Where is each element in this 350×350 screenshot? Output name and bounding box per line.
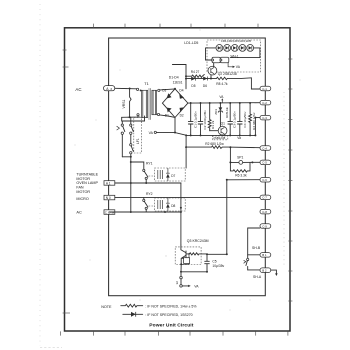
svg-text:VA: VA (194, 284, 199, 288)
svg-text:D6: D6 (203, 84, 207, 88)
LED LD4 (239, 45, 246, 52)
wire: secondary to bridge AC bottom (160, 115, 175, 118)
svg-text:C-8: C-8 (262, 210, 267, 214)
svg-text:LD1-LD5: LD1-LD5 (184, 41, 198, 45)
wire: base drive to micro line (207, 253, 227, 255)
connector A1 (104, 181, 115, 186)
svg-text:B 1: B 1 (262, 253, 267, 257)
switch contacts right branch (130, 117, 132, 124)
svg-text:FAN: FAN (76, 186, 84, 190)
wire: primary bottom bus (122, 116, 140, 118)
svg-text:D3: D3 (162, 88, 166, 92)
wire: VA vertical feed to relays (185, 135, 187, 168)
svg-text:SH-B: SH-B (252, 246, 261, 250)
svg-text:N 0: N 0 (106, 196, 111, 200)
LED LD1 (216, 45, 223, 52)
LED LD2 (224, 45, 231, 52)
diode legend symbol (123, 313, 143, 315)
svg-text:C-6: C-6 (262, 178, 267, 182)
LED LD3 (231, 45, 238, 52)
svg-text:C-2: C-2 (262, 101, 267, 105)
relay RY1 switch (131, 162, 144, 169)
wire: D5 D6 R8 row (186, 77, 217, 79)
connector C-9 (260, 224, 271, 229)
svg-text:Va: Va (237, 136, 241, 140)
svg-text:D5: D5 (191, 84, 195, 88)
diode D6 (203, 77, 207, 81)
relay RY2 switch (143, 197, 145, 199)
svg-text:C-4: C-4 (262, 146, 267, 150)
svg-text:: IF NOT SPECIFIED, 1/4w ± 5%: : IF NOT SPECIFIED, 1/4w ± 5% (145, 305, 196, 309)
connector B-2 (260, 268, 271, 273)
svg-text:TURNTABLE: TURNTABLE (76, 172, 98, 176)
shorting switch SH (247, 255, 249, 259)
svg-text:C2 1000µ/35v: C2 1000µ/35v (203, 110, 207, 130)
resistor legend symbol (121, 304, 143, 307)
zener diode ZD1 (219, 103, 221, 107)
connector C-8 (260, 209, 271, 214)
connector C-6 (260, 178, 271, 183)
capacitor C4 (239, 103, 241, 121)
svg-text:SP1: SP1 (237, 155, 243, 159)
resistor R3 (249, 103, 252, 135)
node: Q2 collector junction (210, 78, 212, 80)
svg-text:Power Unit Circuit: Power Unit Circuit (149, 322, 193, 328)
wire: R1 to Q1 base (210, 130, 219, 132)
svg-text:Q1: Q1 (221, 121, 225, 125)
svg-text:WH-1: WH-1 (231, 55, 239, 59)
wire: B-2 stub with arrow (271, 270, 277, 274)
wire: secondary to bridge AC top (160, 89, 175, 90)
varistor VRS1 (130, 89, 132, 118)
connector C-4 (260, 146, 271, 151)
svg-text:C1 0.1µ/50v: C1 0.1µ/50v (194, 111, 198, 128)
svg-text:B 2: B 2 (262, 269, 267, 273)
svg-text:VRS1: VRS1 (122, 100, 126, 109)
diode D1 (bridge bottom-left) (167, 108, 172, 113)
wire: LED feed left (206, 48, 217, 60)
wire: VA bottom rail (187, 134, 255, 136)
capacitor C1 (190, 103, 192, 121)
connector C-2 (260, 100, 271, 105)
resistor R6 3.3k (230, 162, 250, 172)
display module dashed outline (207, 40, 261, 72)
pin: T1 secondary bottom (157, 113, 159, 115)
node: VRS1 bottom junction (129, 116, 131, 118)
resistor R1 (208, 103, 211, 131)
svg-text:11ES1: 11ES1 (173, 81, 183, 85)
diode D8 (flyback) (167, 198, 169, 203)
connector C-3 (260, 115, 271, 120)
svg-text:R1 2k: R1 2k (211, 120, 215, 129)
wire: +V top rail from bridge to C-2 (188, 102, 260, 104)
diode D4 (bridge top-right) (179, 94, 184, 99)
svg-text:3: 3 (110, 87, 112, 91)
part label box 2SB1238 (212, 136, 228, 140)
wire: N0 row to C-7 (115, 196, 260, 198)
connector A (AC input terminal) (104, 86, 115, 91)
svg-text:Q3 KRC243M: Q3 KRC243M (187, 239, 209, 243)
wire: A to transformer primary (115, 87, 137, 90)
node: rail junction to RY1 (130, 156, 132, 158)
svg-text:RY2: RY2 (146, 192, 153, 196)
svg-text:LD1,LD2,LD3,LD4,LD5: LD1,LD2,LD3,LD4,LD5 (221, 39, 251, 43)
connector N0 (104, 195, 115, 200)
svg-text:C-5: C-5 (262, 161, 267, 165)
svg-text:Q2 2SB1238: Q2 2SB1238 (218, 72, 237, 76)
resistor R8 4.7k (217, 77, 260, 89)
capacitor C5 (206, 254, 208, 261)
svg-text:RD5.6E: RD5.6E (225, 107, 229, 118)
diode D7 (flyback) (167, 168, 169, 173)
wire: COM row (109, 211, 181, 213)
switch LF1 contacts (130, 144, 132, 146)
svg-text:C-9: C-9 (262, 224, 267, 228)
wire: emitter return (180, 264, 182, 272)
net label VA arrow on top rail (221, 100, 223, 103)
svg-text:D8: D8 (171, 204, 175, 208)
svg-text:D1: D1 (165, 114, 169, 118)
svg-text:SH-A: SH-A (253, 275, 262, 279)
svg-text:LF1: LF1 (136, 138, 140, 144)
svg-text:10µ/35v: 10µ/35v (212, 264, 224, 268)
connector WH-1 (212, 57, 220, 63)
svg-text:: IF NOT SPECIFIED, 1SS270: : IF NOT SPECIFIED, 1SS270 (145, 313, 192, 317)
svg-text:2SB1238: 2SB1238 (213, 136, 225, 140)
diode D3 (bridge top-left) (167, 93, 172, 98)
latch LF1 dashed outline (134, 118, 142, 154)
svg-text:D4: D4 (179, 88, 183, 92)
svg-text:R4 27: R4 27 (191, 70, 200, 74)
wire: second bottom bus (122, 120, 145, 122)
wire: micro drive vertical (226, 180, 228, 255)
node: bridge top junction (174, 88, 176, 90)
diode D2 (bridge bottom-right) (180, 107, 185, 112)
svg-text:MOTOR: MOTOR (76, 177, 90, 181)
connector C-7 (260, 195, 271, 200)
wire: C-9 loop to B-1 (248, 228, 260, 255)
svg-text:R8 4.7k: R8 4.7k (216, 82, 228, 86)
svg-text:C4 10µ/50v: C4 10µ/50v (243, 111, 247, 127)
svg-text:D2: D2 (180, 114, 184, 118)
wire: schematic enclosure (left AC rail, top, bottom return) (109, 38, 266, 296)
wire: VA rail left segment (156, 132, 187, 135)
pin: T1 primary bottom (137, 114, 139, 116)
wire: relay drive vertical to Q3 (180, 183, 182, 245)
svg-text:MICRO: MICRO (76, 197, 88, 201)
svg-text:AC: AC (76, 209, 82, 214)
connector B-1 (260, 253, 271, 258)
pin: T1 primary top (137, 88, 139, 90)
svg-text:C-1: C-1 (262, 87, 267, 91)
svg-text:RY1: RY1 (146, 162, 153, 166)
svg-text:T1: T1 (144, 82, 148, 86)
wire: VA rail to C-3 (254, 118, 256, 136)
LED LD5 (247, 45, 254, 52)
connector C-5 (260, 160, 271, 165)
wire: bridge bottom to VA rail (174, 118, 176, 133)
net label VA stub from WH-1 (228, 63, 233, 67)
svg-text:ZD1: ZD1 (214, 109, 218, 115)
wire: A1 row (115, 182, 181, 184)
capacitor C2 (200, 103, 202, 121)
svg-text:C-7: C-7 (262, 196, 267, 200)
wire: micro line to C-6 (227, 179, 260, 181)
svg-text:D1-D4: D1-D4 (169, 76, 179, 80)
svg-text:R2 680 1/2w: R2 680 1/2w (205, 142, 224, 146)
svg-text:D7: D7 (171, 174, 175, 178)
capacitor C3 (229, 103, 231, 121)
connector C-1 (260, 86, 271, 91)
svg-text:MOTOR: MOTOR (76, 190, 90, 194)
node: Q3 base / C5 junction (206, 253, 208, 255)
svg-text:NOTE: NOTE (101, 305, 112, 309)
svg-text:OVEN LAMP: OVEN LAMP (76, 181, 98, 185)
svg-text:32: 32 (175, 281, 179, 285)
pin: T1 secondary top (158, 89, 160, 91)
transistor Q2 2SB1238 (208, 66, 217, 75)
svg-text:AC: AC (75, 87, 81, 92)
svg-text:C-3: C-3 (262, 116, 267, 120)
node: VRS1 top junction (129, 88, 131, 90)
svg-text:A 1: A 1 (106, 181, 111, 185)
connector COM (104, 210, 115, 215)
svg-text:VA: VA (149, 131, 154, 135)
svg-text:R6 3.3k: R6 3.3k (235, 173, 247, 177)
wire: dangling stub into display branch (172, 64, 186, 66)
wire: left vertical feed (bridge AC tap) (185, 65, 187, 89)
wire: LED return right to WH-1 (230, 48, 260, 58)
test point terminals (180, 272, 182, 277)
arrow marker at interlock (117, 126, 120, 130)
net label VA arrow (bottom) (182, 285, 189, 287)
diode D5 (191, 77, 195, 81)
switch contacts (door/interlock) left branch (121, 121, 123, 124)
svg-text:C3 0.1µ/50v: C3 0.1µ/50v (232, 111, 236, 128)
